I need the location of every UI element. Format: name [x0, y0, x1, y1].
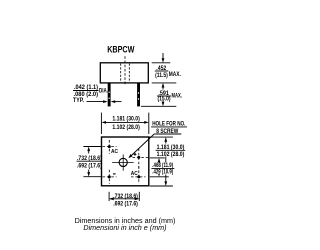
svg-text:KBPCW: KBPCW — [107, 44, 135, 54]
svg-text:AC: AC — [131, 171, 138, 177]
pin - (negative) — [103, 170, 117, 184]
svg-text:1.102 (28.0): 1.102 (28.0) — [157, 152, 185, 158]
svg-text:MAX.: MAX. — [172, 94, 183, 100]
center line (hole axis, side view) — [124, 56, 126, 85]
lead dia value label .042/.080 DIA TYP — [73, 85, 108, 104]
package body side view — [100, 63, 148, 83]
height dimension .452 MAX — [162, 53, 165, 90]
left lead (side view) — [108, 83, 111, 107]
bottom dimension .732/.692 — [109, 197, 139, 200]
svg-text:.692 (17.6): .692 (17.6) — [77, 164, 102, 170]
right lead (side view) — [137, 83, 140, 107]
extension line: top of body (side view) — [152, 62, 171, 64]
right extension lines (bottom view) — [149, 136, 173, 138]
lead length dimension .591 MAX — [162, 101, 165, 107]
left dimension .732/.692 — [87, 147, 90, 177]
hole callout HOLE FOR NO. 8 SCREW — [151, 122, 187, 135]
hole centerline vertical — [122, 155, 124, 171]
svg-text:(15.0): (15.0) — [158, 97, 171, 103]
hole leader arrow — [128, 134, 154, 158]
svg-text:1.181 (30.0): 1.181 (30.0) — [112, 117, 139, 123]
svg-text:TYP.: TYP. — [73, 98, 84, 104]
mounting hole — [119, 158, 127, 166]
svg-text:1.102 (28.0): 1.102 (28.0) — [112, 125, 139, 131]
svg-text:.732 (18.6): .732 (18.6) — [113, 194, 138, 200]
right dimension .468/.429 — [158, 158, 161, 177]
svg-text:Dimensioni in inch e (mm): Dimensioni in inch e (mm) — [83, 225, 166, 232]
extension line: bottom of body (side view) — [152, 82, 177, 84]
svg-text:.692 (17.6): .692 (17.6) — [113, 201, 138, 207]
svg-text:MAX.: MAX. — [169, 72, 181, 78]
hidden hole edge right (side view) — [128, 64, 130, 83]
pin AC bottom-right — [131, 166, 146, 184]
pin + (positive) — [133, 149, 150, 171]
top width dimension 1.181/1.102 — [101, 113, 148, 134]
svg-text:Dimensions in inches and (mm): Dimensions in inches and (mm) — [75, 218, 176, 225]
extension line: bottom of leads (side view) — [141, 105, 176, 107]
hidden hole edge left (side view) — [120, 64, 122, 83]
right dimension 1.181/1.102 (height) — [164, 137, 167, 186]
lead diameter dimension arrows — [87, 100, 122, 103]
svg-text:AC: AC — [111, 149, 118, 155]
svg-text:(11.5): (11.5) — [155, 73, 168, 79]
left pin-row extension lines — [83, 146, 101, 148]
hole centerline horizontal — [112, 161, 134, 163]
package body bottom view (square) — [102, 137, 149, 186]
bottom extension lines — [108, 192, 110, 201]
pin AC top-left — [103, 140, 119, 155]
svg-text:DIA.: DIA. — [99, 89, 108, 95]
svg-text:.429 (10.9): .429 (10.9) — [152, 169, 173, 175]
